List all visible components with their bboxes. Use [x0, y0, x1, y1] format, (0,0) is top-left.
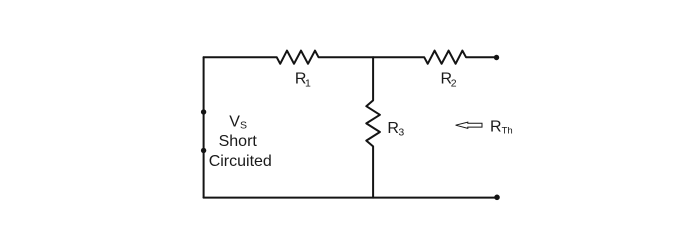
svg-text:R: R: [387, 120, 399, 137]
svg-text:3: 3: [398, 127, 404, 139]
svg-text:Circuited: Circuited: [209, 153, 272, 170]
svg-text:2: 2: [451, 77, 457, 89]
svg-text:S: S: [240, 120, 247, 132]
svg-text:Short: Short: [219, 133, 258, 150]
svg-text:V: V: [229, 113, 240, 130]
svg-text:1: 1: [305, 77, 311, 89]
svg-text:R: R: [490, 119, 502, 136]
svg-text:Th: Th: [502, 126, 513, 137]
